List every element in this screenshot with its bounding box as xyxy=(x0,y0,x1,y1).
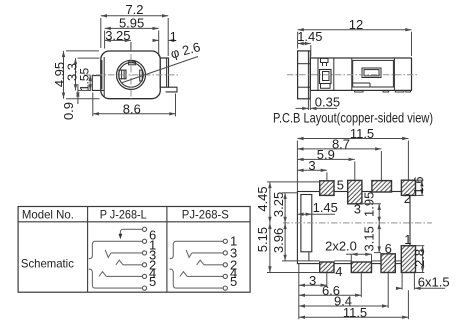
front view body outline xyxy=(101,51,161,99)
svg-text:0.9: 0.9 xyxy=(61,102,76,120)
dimension 0.35 xyxy=(296,90,341,110)
svg-text:5: 5 xyxy=(230,274,237,289)
svg-text:3: 3 xyxy=(308,158,315,173)
schematic L pin 2 wire xyxy=(116,260,143,265)
svg-text:0.35: 0.35 xyxy=(315,95,340,110)
svg-text:P.C.B Layout(copper-sided view: P.C.B Layout(copper-sided view) xyxy=(273,110,433,126)
land pattern centerline xyxy=(283,222,432,224)
svg-text:2: 2 xyxy=(404,191,411,206)
schematic L pin 4 wire xyxy=(99,272,142,277)
schematic S pin 5 terminal xyxy=(223,286,227,290)
front view right mounting tab xyxy=(166,87,177,92)
side view bezel xyxy=(298,51,311,99)
dimension 8.7 xyxy=(297,137,381,181)
front view contact block xyxy=(119,70,126,79)
dimension 0.9 xyxy=(61,84,80,120)
schematic S pin 1 terminal xyxy=(223,239,227,243)
pad label 6 xyxy=(385,241,392,256)
front view barrel protrusion xyxy=(160,58,168,87)
svg-text:6x1.5: 6x1.5 xyxy=(418,275,450,290)
schematic S pin 3 label xyxy=(230,246,237,261)
pad 6 xyxy=(381,254,395,273)
svg-text:5.9: 5.9 xyxy=(317,147,335,162)
table outer border xyxy=(18,207,250,293)
dimension 1.45 side xyxy=(297,29,322,56)
dimension 8.6 xyxy=(93,93,176,117)
schematic L pin 5 wire xyxy=(89,269,143,288)
dimension 3.3 xyxy=(64,58,99,90)
dimension 12 xyxy=(298,17,412,56)
svg-text:4: 4 xyxy=(335,264,342,279)
svg-text:3.96: 3.96 xyxy=(271,228,286,253)
pad label 2 xyxy=(404,191,411,206)
dimension 7.2 xyxy=(101,2,168,56)
schematic L pin 4 terminal xyxy=(142,274,146,278)
schematic S pin 4 terminal xyxy=(223,274,227,278)
svg-text:1.55: 1.55 xyxy=(78,67,92,91)
side view leg 2 xyxy=(383,90,389,92)
svg-text:1.45: 1.45 xyxy=(313,200,338,215)
dimension 5.9 xyxy=(297,147,354,180)
svg-text:3.25: 3.25 xyxy=(105,28,130,43)
leader line phi 2.6 xyxy=(121,39,202,83)
schematic S pin 2 wire xyxy=(197,260,223,265)
dimension 3.96 xyxy=(271,223,401,261)
table header PJ-268-S xyxy=(182,208,229,222)
side view top small rect xyxy=(321,58,329,66)
schematic L pin 6 terminal xyxy=(142,227,146,231)
dimension 3.25 xyxy=(105,28,131,51)
svg-text:PJ-268-S: PJ-268-S xyxy=(182,208,229,222)
schematic S pin 2 terminal xyxy=(223,263,227,267)
table header divider xyxy=(18,221,250,223)
dimension 3 top xyxy=(297,158,327,180)
pad label 3 xyxy=(354,201,361,216)
side view body xyxy=(310,58,411,90)
svg-text:3: 3 xyxy=(354,201,361,216)
svg-text:1: 1 xyxy=(404,232,411,247)
schematic S pin 2 label xyxy=(230,257,237,272)
dimension 4.95 xyxy=(52,51,99,99)
front view outer circle xyxy=(117,60,146,89)
side view internal divider 3 xyxy=(351,58,353,90)
svg-text:3.15: 3.15 xyxy=(362,226,377,251)
dimension 4.45 xyxy=(255,182,320,223)
side view leg 4 xyxy=(406,90,411,92)
caption PCB layout xyxy=(273,110,433,126)
svg-text:1.45: 1.45 xyxy=(297,29,322,44)
front view top notch xyxy=(129,62,136,65)
pad label 5 xyxy=(337,178,344,193)
svg-text:8.6: 8.6 xyxy=(123,101,141,116)
side view bottom tab xyxy=(321,84,331,88)
dimension 9.4 xyxy=(299,273,388,308)
schematic S pin 1 wire xyxy=(170,241,224,258)
land pattern jack hole step xyxy=(308,252,310,260)
dimension 3 bottom xyxy=(299,264,327,319)
front view horizontal centerline xyxy=(84,74,178,76)
front view left mounting tab xyxy=(92,76,104,91)
schematic L pin 1 label xyxy=(149,237,156,252)
svg-text:3.25: 3.25 xyxy=(271,192,286,217)
side view inner big rect xyxy=(353,60,394,87)
dimension 11.5 top xyxy=(297,126,408,191)
pad 5 xyxy=(320,181,334,196)
schematic L pin 4 label xyxy=(149,265,156,280)
dimension 1.95 xyxy=(362,192,381,223)
front view inner circle xyxy=(119,63,144,88)
schematic S pin 5 wire xyxy=(170,269,224,288)
svg-text:6: 6 xyxy=(385,241,392,256)
side view internal divider 1 xyxy=(317,58,319,90)
schematic L pin 2 label xyxy=(149,257,156,272)
front view right bar xyxy=(140,70,143,81)
side view contact block xyxy=(320,70,332,84)
schematic L pin 5 terminal xyxy=(142,286,146,290)
side view leg 3 xyxy=(395,90,404,92)
svg-text:5: 5 xyxy=(149,274,156,289)
svg-text:5: 5 xyxy=(337,178,344,193)
schematic S pin 3 wire xyxy=(186,250,223,258)
pad 4 xyxy=(320,262,334,273)
schematic L pin 6 wire xyxy=(119,229,143,239)
schematic L pin 1 terminal xyxy=(142,239,146,243)
schematic L pin 3 terminal xyxy=(142,251,146,255)
schematic L pin 6 label xyxy=(149,227,156,242)
land pattern jack hole xyxy=(301,195,312,252)
schematic L pin 1 wire xyxy=(89,241,143,258)
table header PJ-268-L xyxy=(100,208,147,222)
pad 2 xyxy=(401,180,415,195)
svg-text:1: 1 xyxy=(170,29,177,44)
pad 1 xyxy=(401,246,415,273)
svg-text:2.8: 2.8 xyxy=(412,249,427,267)
schematic L pin 3 label xyxy=(149,247,156,262)
anchor pad top xyxy=(372,181,392,192)
side view centerline xyxy=(287,74,419,76)
table header Model No. xyxy=(22,208,74,222)
svg-text:2x2.0: 2x2.0 xyxy=(325,239,357,254)
svg-text:11.5: 11.5 xyxy=(343,305,367,320)
dimension 1.6 xyxy=(411,176,426,195)
svg-text:5.15: 5.15 xyxy=(255,227,270,252)
schematic S pin 4 wire xyxy=(180,272,223,277)
side view leg 1 xyxy=(355,90,364,92)
dimension 5.95 xyxy=(105,15,159,56)
table column divider 1 xyxy=(87,207,89,293)
schematic L pin 3 wire xyxy=(105,250,142,258)
schematic S pin 1 label xyxy=(230,234,237,249)
schematic S pin 3 terminal xyxy=(223,251,227,255)
svg-text:12: 12 xyxy=(349,17,363,32)
dimension 1 xyxy=(153,29,177,44)
side view inner double rect xyxy=(362,68,381,78)
svg-text:1.6: 1.6 xyxy=(411,176,426,194)
side view internal divider 4 xyxy=(393,58,395,90)
dimension 3.25 land xyxy=(271,192,297,223)
dimension 2x2.0 xyxy=(325,239,371,262)
dimension 3.15 xyxy=(362,223,381,253)
front view vertical centerline xyxy=(130,42,132,99)
anchor pad bottom xyxy=(351,262,371,273)
dimension 1.45 land xyxy=(297,200,338,216)
side view internal divider 2 xyxy=(333,58,335,90)
schematic L pin 2 terminal xyxy=(142,263,146,267)
dimension 1.55 xyxy=(78,67,92,91)
schematic S pin 5 label xyxy=(230,274,237,289)
svg-text:11.5: 11.5 xyxy=(350,126,374,141)
table cell Schematic xyxy=(21,256,74,270)
dimension 6x1.5 xyxy=(396,273,450,290)
svg-text:4.45: 4.45 xyxy=(255,186,270,211)
pad label 4 xyxy=(335,264,342,279)
svg-text:Model No.: Model No. xyxy=(22,208,74,222)
pad label 1 xyxy=(404,232,411,247)
svg-text:Schematic: Schematic xyxy=(21,256,74,270)
svg-text:3: 3 xyxy=(309,273,316,288)
land pattern outline xyxy=(297,192,410,264)
table column divider 2 xyxy=(166,207,168,293)
pad 3 xyxy=(348,180,362,203)
dimension 11.5 bottom xyxy=(299,290,409,320)
schematic S pin 4 label xyxy=(230,265,237,280)
svg-text:P J-268-L: P J-268-L xyxy=(100,208,147,222)
dimension 6.6 xyxy=(299,273,362,298)
dimension 5.15 xyxy=(255,223,320,273)
schematic L pin 5 label xyxy=(149,274,156,289)
dimension 2.8 xyxy=(412,246,427,273)
